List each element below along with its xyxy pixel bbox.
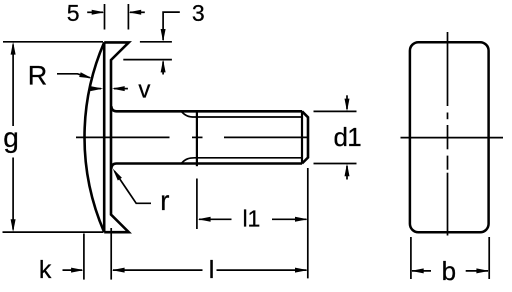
svg-text:5: 5 xyxy=(67,0,80,26)
svg-text:3: 3 xyxy=(192,0,205,26)
svg-text:l: l xyxy=(209,256,215,284)
svg-text:k: k xyxy=(39,256,52,284)
svg-text:l1: l1 xyxy=(242,206,260,232)
svg-text:v: v xyxy=(138,77,150,104)
svg-text:b: b xyxy=(442,256,456,286)
svg-text:R: R xyxy=(28,60,48,90)
svg-text:r: r xyxy=(160,185,169,216)
svg-text:d1: d1 xyxy=(334,122,362,152)
svg-text:g: g xyxy=(3,122,19,153)
